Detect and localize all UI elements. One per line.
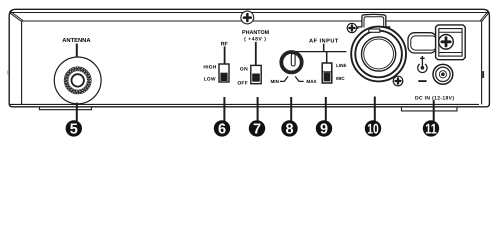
panel bottom inner edge line [10, 103, 479, 105]
svg-text:8: 8 [285, 122, 293, 138]
leader line DC IN to callout 11 [433, 100, 435, 121]
callout 9 [316, 120, 332, 136]
svg-text:ON: ON [240, 66, 248, 72]
svg-text:MAX: MAX [306, 79, 317, 84]
LINE/MIC switch slider knob (MIC position) [324, 72, 331, 81]
svg-text:5: 5 [70, 122, 78, 138]
knob MIN pointer [280, 76, 288, 81]
DC cable clamp barrel inner line [411, 36, 437, 50]
DC clamp block [436, 25, 466, 60]
DC clamp block inner rect [439, 29, 462, 56]
DC cable clamp barrel [408, 33, 437, 53]
callout 6 [214, 120, 230, 136]
svg-text:( +48V ): ( +48V ) [244, 37, 266, 43]
callout 8 [281, 120, 297, 136]
leader line switch to callout 9 [325, 97, 327, 121]
XLR latch slot notch [369, 29, 380, 32]
antenna BNC connector outer circle [54, 57, 101, 104]
svg-text:HIGH: HIGH [203, 64, 216, 70]
right edge clip detail [482, 71, 484, 78]
DC jack outer circle [433, 64, 453, 84]
DC clamp screw [439, 35, 454, 50]
RF switch slider knob (LOW position) [220, 73, 227, 81]
leader line phantom label to switch [255, 42, 257, 65]
polarity symbol plus [420, 56, 425, 61]
DC jack ring [436, 67, 450, 81]
LINE/MIC switch body [322, 63, 332, 83]
knob MAX pointer [295, 76, 303, 81]
LINE/MIC switch divider [322, 71, 332, 73]
XLR insert circle [362, 37, 396, 71]
DC jack center pin [441, 73, 445, 77]
AF level knob slot [291, 54, 295, 66]
leader line knob to callout 8 [290, 97, 292, 121]
svg-text:MIN: MIN [270, 79, 279, 84]
leader line RF switch to callout 6 [223, 97, 225, 121]
DC clamp block plate lines [439, 32, 462, 52]
left foot tab [40, 107, 92, 110]
XLR connector ring inner line [355, 31, 402, 78]
phantom switch slider knob (OFF position) [252, 74, 260, 82]
antenna connector center ring [72, 74, 84, 86]
callout 10 [365, 120, 381, 136]
polarity symbol minus [418, 80, 426, 82]
panel chassis outer outline [9, 9, 489, 107]
panel front face left edge [21, 21, 23, 104]
callout 5 [66, 120, 82, 136]
panel top inner edge line [11, 12, 489, 14]
DC area bracket tab [402, 107, 458, 111]
svg-text:6: 6 [218, 122, 226, 138]
svg-text:AF INPUT: AF INPUT [309, 38, 339, 44]
svg-text:9: 9 [320, 122, 328, 138]
top panel screw [241, 11, 254, 24]
phantom switch body [251, 65, 261, 83]
XLR connector outer ring [351, 27, 406, 82]
XLR latch tab inner line [364, 17, 384, 28]
svg-text:OFF: OFF [237, 80, 248, 86]
panel chamfer top-left [10, 13, 21, 21]
leader line antenna to callout 5 [76, 103, 78, 121]
polarity symbol arc [418, 64, 427, 73]
svg-text:LINE: LINE [336, 63, 346, 68]
panel chamfer top-right [482, 13, 489, 21]
antenna connector knurled ring [66, 69, 89, 92]
RF switch body [219, 64, 229, 82]
callout 11 [423, 120, 439, 136]
XLR mounting screw top-left [347, 23, 356, 32]
panel front face right edge [481, 21, 483, 104]
polarity symbol center dot [421, 66, 425, 70]
svg-text:PHANTOM: PHANTOM [242, 30, 270, 36]
svg-text:10: 10 [367, 120, 379, 136]
leader stem AF INPUT label [323, 44, 325, 52]
panel front face top line [22, 20, 482, 22]
svg-text:ANTENNA: ANTENNA [62, 38, 91, 44]
XLR insert inner circle [364, 39, 394, 69]
leader line RF label to switch [224, 46, 226, 64]
svg-text:7: 7 [253, 122, 261, 138]
left edge hinge detail [7, 71, 8, 75]
callout 7 [249, 120, 265, 136]
svg-text:11: 11 [425, 120, 437, 136]
svg-text:MIC: MIC [336, 76, 345, 81]
AF level knob outer ring [281, 52, 301, 72]
DC jack inner ring [439, 71, 446, 78]
leader line antenna label to connector [76, 44, 78, 58]
leader line XLR to callout 10 [374, 97, 376, 122]
XLR mounting screw bottom-right [393, 76, 403, 86]
polarity symbol center line [421, 61, 423, 68]
AF INPUT bracket line [296, 51, 346, 53]
leader line phantom switch to callout 7 [257, 97, 259, 121]
leader stem to LINE/MIC switch [326, 52, 328, 63]
svg-text:LOW: LOW [204, 77, 216, 83]
XLR latch tab outer [358, 14, 390, 29]
